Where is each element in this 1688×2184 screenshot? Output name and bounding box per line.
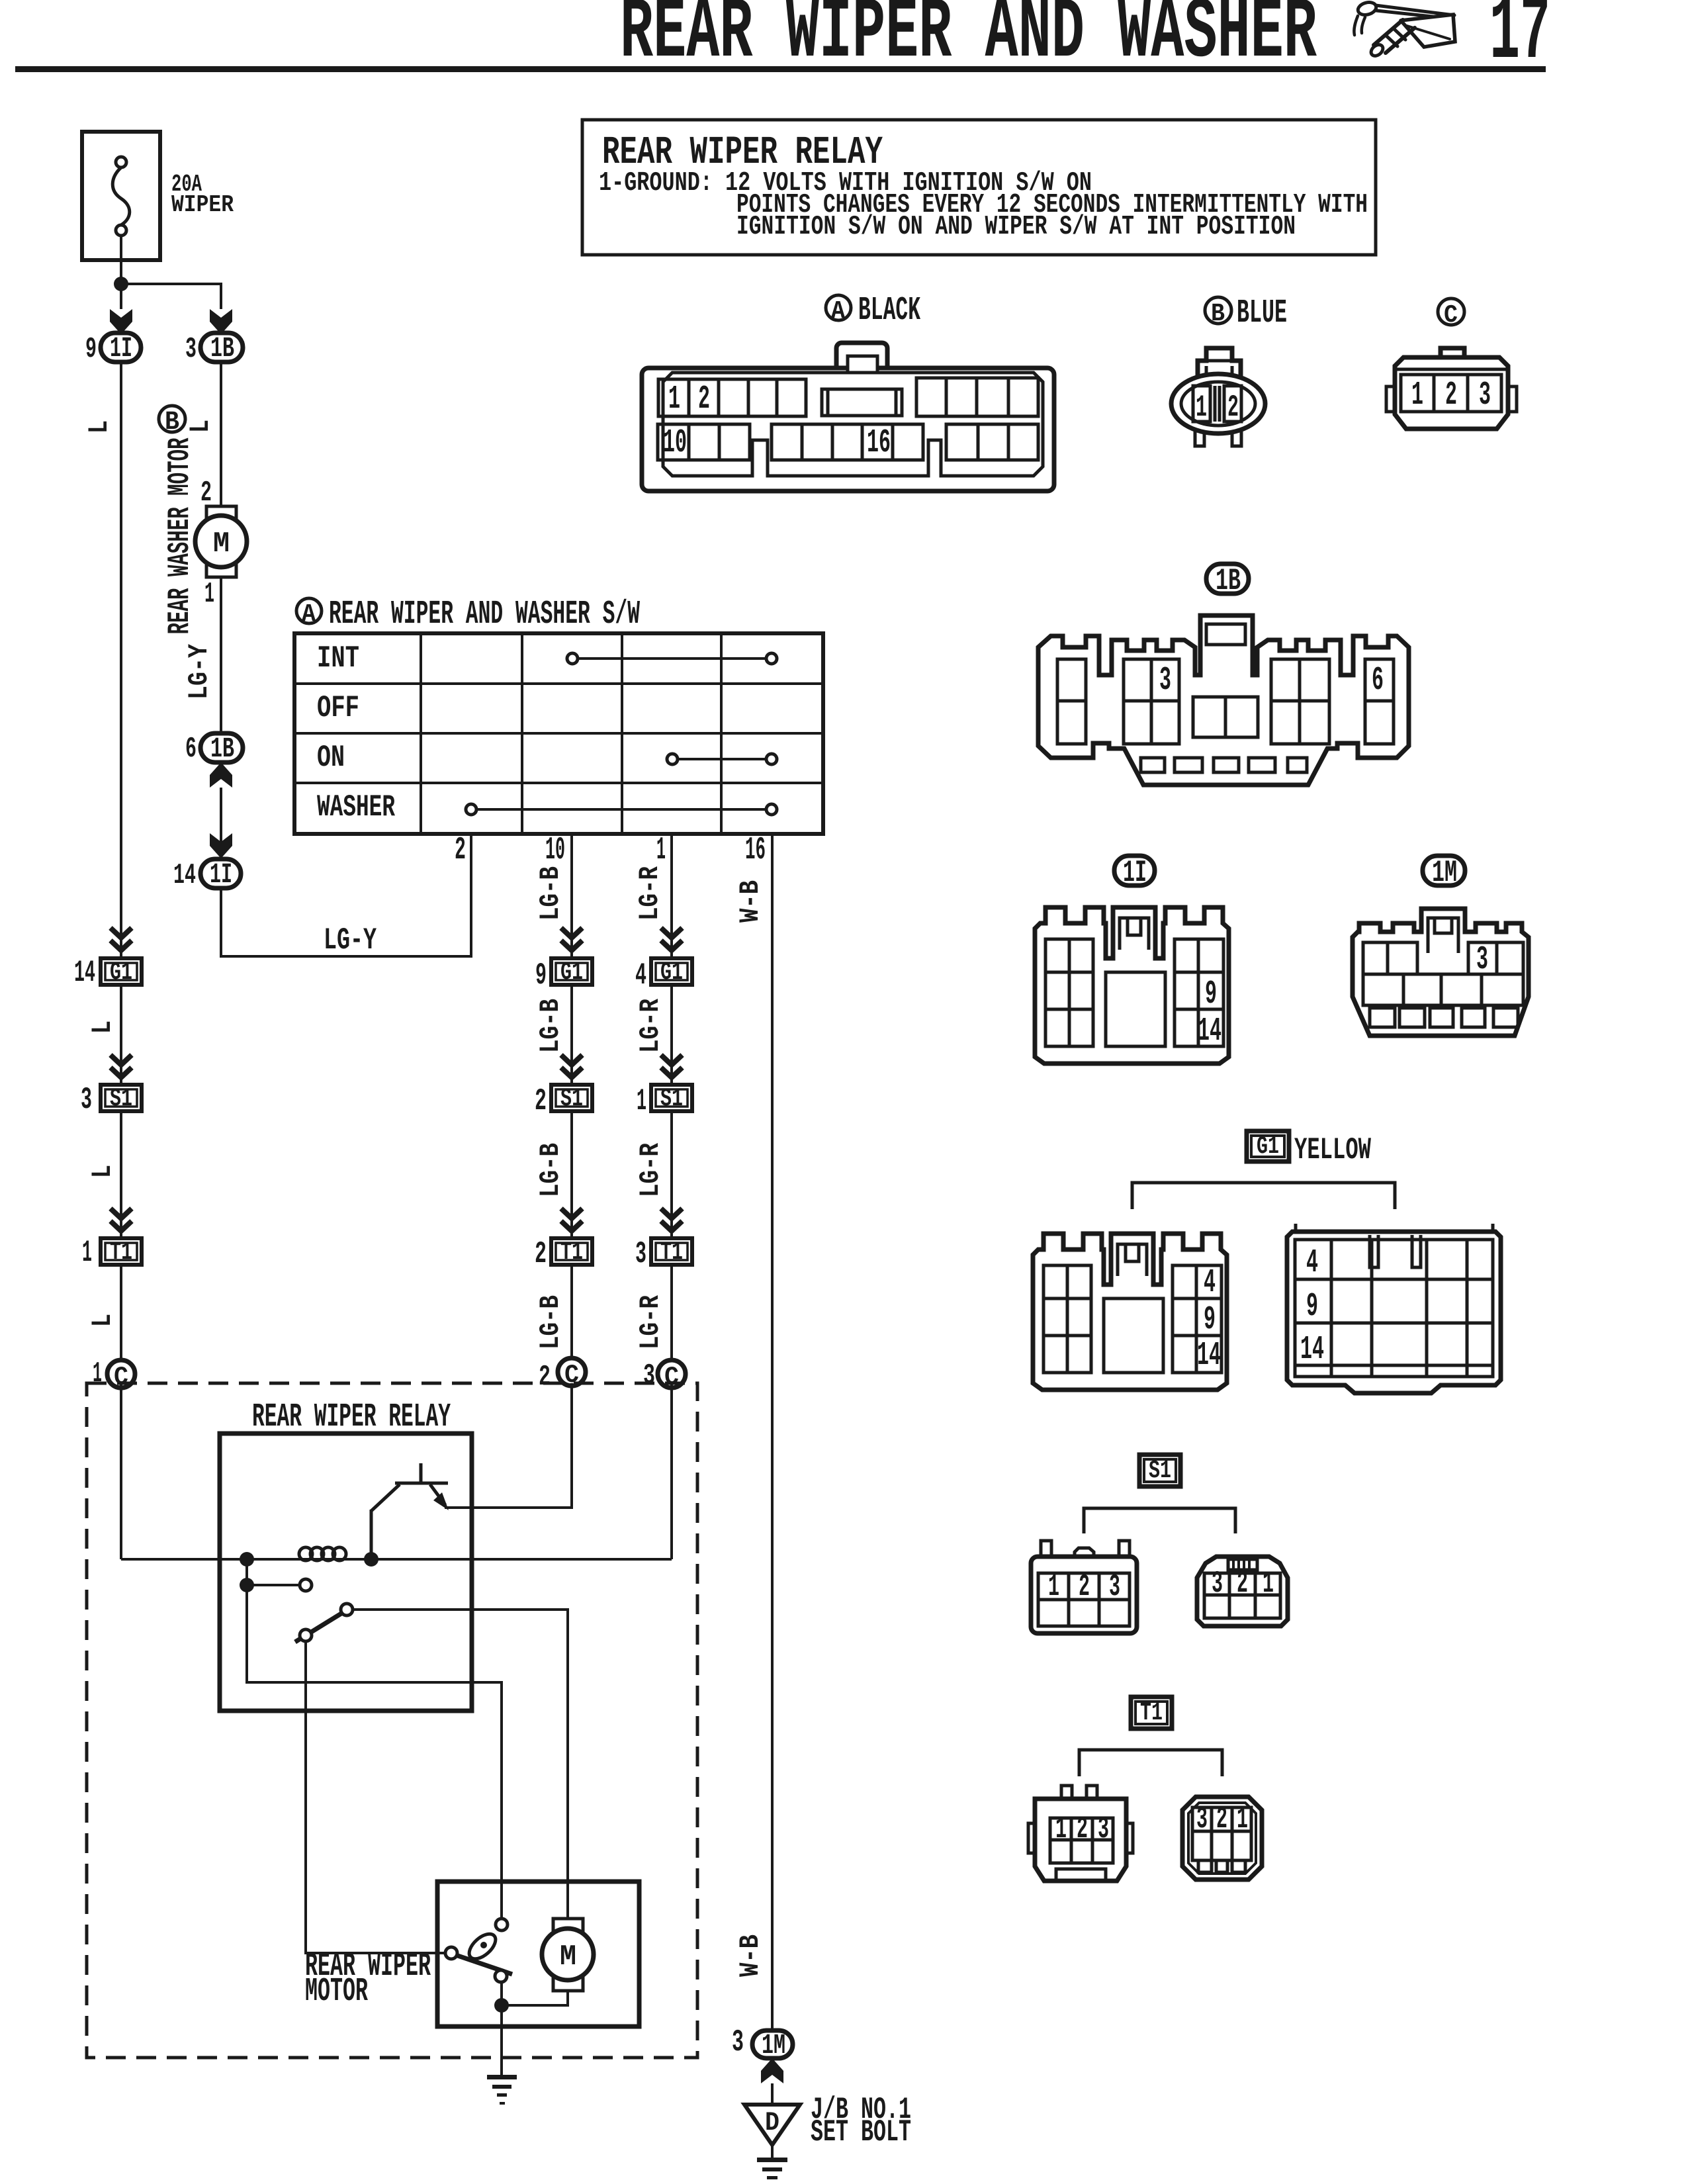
svg-text:16: 16 — [745, 833, 766, 868]
svg-text:YELLOW: YELLOW — [1294, 1133, 1371, 1167]
connector G1 female body — [1033, 1234, 1227, 1390]
SECTION: infobox — [582, 120, 1376, 255]
connector G1 male body — [1287, 1232, 1501, 1393]
pivot contact circle — [300, 1629, 312, 1641]
svg-text:SET BOLT: SET BOLT — [811, 2115, 911, 2150]
connector T1 female side ears — [1028, 1823, 1133, 1853]
title underline — [15, 66, 1546, 72]
T1 female grid — [1050, 1818, 1113, 1863]
svg-text:L: L — [87, 1021, 118, 1034]
svg-text:REAR WASHER MOTOR: REAR WASHER MOTOR — [163, 437, 197, 634]
svg-text:1: 1 — [82, 1236, 92, 1270]
arrow into 1I — [210, 833, 232, 858]
wire to motor M bottom — [502, 1991, 568, 2005]
svg-text:1B: 1B — [210, 733, 234, 765]
svg-text:3: 3 — [732, 2025, 744, 2060]
SECTION: connG1 — [1033, 1131, 1501, 1393]
wire from coil junction down and to motor contact — [247, 1585, 502, 1918]
T1 male bottom slots — [1198, 1860, 1245, 1872]
wire L to washer motor — [220, 362, 222, 506]
svg-text:2: 2 — [1079, 1570, 1090, 1604]
svg-text:1B: 1B — [210, 332, 234, 365]
cam symbol — [465, 1929, 500, 1963]
connector C side ears — [1386, 387, 1517, 412]
svg-text:3: 3 — [1109, 1570, 1120, 1604]
pin 1 stub — [670, 834, 673, 1362]
svg-text:A: A — [302, 600, 316, 629]
1B skirt slots — [1141, 758, 1307, 772]
svg-text:M: M — [560, 1940, 576, 1974]
svg-text:14: 14 — [1198, 1013, 1222, 1050]
svg-text:1B: 1B — [1216, 564, 1241, 598]
connector B body oval — [1171, 374, 1265, 433]
arrow into S1 right — [661, 1055, 682, 1077]
svg-text:S1: S1 — [560, 1085, 583, 1113]
arrow into G1 right — [661, 928, 682, 950]
svg-text:LG-R: LG-R — [635, 1142, 666, 1197]
svg-text:10: 10 — [663, 424, 687, 462]
svg-text:1I: 1I — [110, 332, 132, 365]
switch table frame — [294, 633, 823, 834]
S1 bracket — [1084, 1508, 1235, 1533]
svg-text:D: D — [765, 2109, 779, 2138]
svg-text:14: 14 — [1300, 1331, 1324, 1369]
moving contact circle — [341, 1604, 353, 1615]
motor switch pivot — [445, 1947, 457, 1959]
svg-text:3: 3 — [185, 333, 197, 366]
svg-text:2: 2 — [1227, 390, 1239, 425]
wire LG-Y from washer motor — [220, 577, 222, 735]
connector B top post — [1198, 348, 1241, 380]
connector T1 male body — [1182, 1797, 1262, 1880]
svg-text:WASHER: WASHER — [317, 790, 395, 825]
wire between 1B and 1I — [220, 788, 222, 860]
svg-text:BLUE: BLUE — [1237, 295, 1287, 332]
wire left contact feed — [247, 1559, 299, 1585]
connector C cells — [1401, 375, 1501, 412]
fixed contact circle — [300, 1579, 312, 1591]
svg-text:1: 1 — [1237, 1802, 1248, 1837]
svg-text:3: 3 — [635, 1237, 646, 1271]
svg-text:1: 1 — [204, 578, 214, 611]
transistor Q1 — [371, 1463, 448, 1559]
arrow into S1 mid — [561, 1055, 582, 1077]
S1 female grid — [1038, 1573, 1130, 1626]
svg-text:REAR WIPER RELAY: REAR WIPER RELAY — [252, 1398, 451, 1436]
svg-text:3: 3 — [643, 1359, 655, 1392]
connector C tab — [1441, 348, 1464, 367]
circle B label — [159, 406, 185, 432]
svg-text:9: 9 — [85, 333, 97, 366]
connector S1 female body — [1031, 1557, 1137, 1633]
svg-text:2: 2 — [698, 381, 710, 418]
junction box label G1 — [1247, 1131, 1289, 1161]
pin row 10 group — [658, 424, 750, 460]
svg-text:B: B — [165, 408, 179, 437]
connector S1 male body — [1197, 1557, 1288, 1626]
connector A body — [642, 368, 1054, 491]
connector B feet — [1195, 430, 1241, 446]
svg-text:14: 14 — [173, 859, 196, 892]
junction box label S1 — [1139, 1455, 1180, 1486]
SECTION: switchtable — [294, 596, 823, 2032]
svg-text:3: 3 — [81, 1083, 92, 1117]
svg-text:2: 2 — [1077, 1812, 1088, 1846]
connector C body — [1395, 357, 1508, 429]
connector T1 female body — [1035, 1799, 1126, 1881]
svg-text:A: A — [831, 297, 845, 326]
svg-text:WIPER: WIPER — [171, 191, 234, 218]
svg-text:1M: 1M — [762, 2029, 785, 2062]
label C circle — [1438, 298, 1464, 325]
wire from 3C down to coil line — [670, 1385, 673, 1559]
label REAR WIPER RELAY — [238, 1396, 470, 1430]
svg-text:14: 14 — [74, 956, 95, 990]
svg-text:ON: ON — [317, 741, 345, 775]
junction dot — [114, 277, 128, 291]
washer motor M — [206, 506, 236, 524]
wire from moving contact to wiper motor M — [353, 1610, 568, 1920]
WASHER contact line — [476, 808, 767, 811]
junction dot right — [364, 1552, 378, 1567]
wire from 2C down to transistor emitter — [445, 1383, 572, 1508]
svg-text:L: L — [185, 420, 216, 433]
svg-text:2: 2 — [535, 1237, 547, 1271]
svg-text:REAR WIPER AND WASHER S/W: REAR WIPER AND WASHER S/W — [329, 596, 640, 633]
connector S1 female top tabs — [1041, 1541, 1130, 1558]
fuse 20A WIPER box — [82, 132, 160, 260]
1B mid-left cells — [1124, 659, 1179, 744]
svg-text:LG-B: LG-B — [535, 1143, 566, 1197]
wire from pivot to motor switch — [306, 1641, 444, 1953]
svg-text:4: 4 — [635, 958, 646, 993]
ground motor — [487, 2075, 517, 2105]
rear wiper motor box — [437, 1882, 639, 2026]
G1 male top stubs — [1296, 1224, 1493, 1232]
T1 male grid — [1192, 1807, 1251, 1860]
svg-text:C: C — [1444, 301, 1458, 330]
svg-text:T1: T1 — [110, 1238, 132, 1267]
svg-text:9: 9 — [1204, 1301, 1216, 1339]
svg-text:B: B — [1211, 300, 1225, 328]
arrow into G1 left — [111, 928, 132, 950]
svg-text:4: 4 — [1306, 1244, 1318, 1282]
svg-text:G1: G1 — [560, 958, 583, 987]
top right pin group — [916, 378, 1038, 416]
svg-text:1: 1 — [637, 1084, 646, 1118]
wire contact to ground — [500, 1982, 503, 2077]
svg-text:IGNITION S/W ON AND WIPER S/W: IGNITION S/W ON AND WIPER S/W AT INT POS… — [736, 212, 1296, 242]
junction dot left — [240, 1552, 254, 1567]
svg-text:LG-R: LG-R — [635, 1295, 666, 1349]
1M top row cells — [1363, 942, 1417, 974]
svg-text:1I: 1I — [1123, 856, 1147, 890]
junction dot motor — [494, 1998, 509, 2013]
svg-text:M: M — [213, 527, 230, 561]
wiper arm icon — [1354, 1, 1455, 58]
svg-text:3: 3 — [1196, 1802, 1208, 1837]
pin 10 stub — [570, 834, 573, 1361]
connector 1M body — [1353, 909, 1529, 1036]
svg-text:6: 6 — [185, 733, 197, 766]
svg-text:6: 6 — [1372, 662, 1384, 700]
svg-text:1I: 1I — [210, 858, 232, 891]
svg-text:4: 4 — [1204, 1264, 1216, 1302]
svg-text:G1: G1 — [1257, 1132, 1279, 1161]
svg-text:S1: S1 — [110, 1085, 132, 1113]
label B circle BLUE — [1205, 297, 1231, 324]
wire LG-Y to switch pin 2 — [221, 834, 471, 956]
svg-text:G1: G1 — [660, 958, 683, 987]
connector 1M post inner — [1428, 918, 1458, 953]
svg-text:T1: T1 — [1140, 1699, 1163, 1727]
rear wiper relay info box — [582, 120, 1376, 255]
connector 1B post inner — [1206, 624, 1245, 645]
svg-text:2: 2 — [535, 1084, 547, 1118]
middle key slot — [822, 389, 902, 416]
SECTION: connS1T1 — [1028, 1455, 1288, 1881]
S1 male grid — [1204, 1573, 1280, 1618]
svg-text:S1: S1 — [660, 1085, 683, 1113]
svg-text:2: 2 — [539, 1361, 551, 1394]
connector oval label 1I — [1114, 856, 1155, 886]
svg-text:1: 1 — [1411, 377, 1423, 414]
wiper motor M — [553, 1919, 583, 1936]
svg-text:1: 1 — [1196, 390, 1207, 425]
svg-text:2: 2 — [1216, 1802, 1227, 1837]
motor upper fixed contact — [496, 1919, 508, 1931]
connector A tab inner — [848, 356, 877, 379]
svg-text:LG-B: LG-B — [535, 999, 566, 1053]
connector B cells 1 2 — [1193, 386, 1210, 422]
arrow into 1I — [110, 309, 132, 334]
svg-text:9: 9 — [535, 958, 547, 993]
pin 16 stub — [771, 834, 774, 2032]
svg-text:9: 9 — [1306, 1288, 1318, 1326]
SECTION: connBC — [1171, 295, 1517, 446]
svg-text:OFF: OFF — [317, 691, 359, 725]
svg-text:3: 3 — [1479, 377, 1491, 414]
svg-text:3: 3 — [1212, 1567, 1223, 1601]
pin row 16 group — [772, 424, 923, 460]
motor moving contact — [495, 1970, 507, 1982]
ground set bolt — [757, 2158, 787, 2179]
svg-text:3: 3 — [1159, 662, 1171, 700]
svg-text:T1: T1 — [660, 1238, 683, 1267]
svg-text:1: 1 — [656, 833, 666, 868]
T1 bracket — [1079, 1750, 1222, 1776]
connector A inner outline — [663, 373, 1043, 476]
svg-text:14: 14 — [1197, 1337, 1221, 1375]
arrow into T1 right — [661, 1208, 682, 1231]
wire L left column — [120, 362, 122, 1362]
svg-text:1: 1 — [1263, 1567, 1274, 1601]
svg-text:LG-R: LG-R — [635, 998, 666, 1053]
1B left wing cell — [1057, 659, 1086, 744]
svg-text:BLACK: BLACK — [858, 292, 920, 330]
G1 bracket — [1132, 1183, 1395, 1209]
wire 1M to set bolt — [771, 2083, 774, 2103]
SECTION: header — [15, 0, 1550, 85]
arrow into G1 mid — [561, 928, 582, 950]
svg-text:L: L — [83, 420, 115, 433]
wire branch to right — [121, 284, 221, 309]
relay switch arm — [295, 1612, 343, 1642]
1M skirt slots — [1370, 1008, 1518, 1027]
svg-text:INT: INT — [317, 641, 359, 676]
arrow into 1B — [210, 309, 232, 334]
svg-text:1: 1 — [1048, 1570, 1059, 1604]
relay coil — [299, 1547, 346, 1561]
fuse element — [112, 167, 130, 225]
arrow up into 1M — [761, 2058, 783, 2083]
table row lines — [294, 684, 823, 783]
svg-text:LG-B: LG-B — [535, 1295, 566, 1349]
label A circle BLACK — [826, 295, 851, 320]
connector A tab — [836, 343, 887, 376]
wire from 1C down — [120, 1385, 122, 1559]
G1 male inner grid — [1295, 1240, 1493, 1377]
connector 1I body — [1035, 907, 1229, 1064]
connector oval label 1B — [1206, 564, 1249, 594]
rear wiper relay box — [220, 1433, 472, 1711]
coil feed wire — [121, 1558, 672, 1561]
svg-text:2: 2 — [455, 833, 466, 868]
junction dot lower — [240, 1578, 254, 1592]
motor switch arm — [456, 1955, 512, 1974]
1B center cells — [1193, 697, 1258, 737]
svg-text:L: L — [87, 1165, 118, 1178]
set bolt D triangle — [744, 2105, 800, 2145]
SECTION: relaybottom — [87, 1383, 911, 2179]
arrow into T1 left — [111, 1208, 132, 1231]
svg-text:2: 2 — [1237, 1567, 1248, 1601]
wire from fuse down — [120, 236, 122, 309]
T1 female bottom slot — [1056, 1869, 1106, 1881]
pin row 1-2 group — [658, 379, 806, 416]
S1 male latch hatch — [1228, 1559, 1257, 1570]
svg-text:1: 1 — [668, 381, 680, 418]
1B mid-right cells — [1271, 659, 1329, 744]
svg-text:3: 3 — [1098, 1812, 1109, 1846]
svg-text:MOTOR: MOTOR — [305, 1973, 368, 2011]
ON contact line — [677, 758, 767, 760]
svg-text:LG-B: LG-B — [535, 866, 566, 921]
svg-text:10: 10 — [545, 833, 565, 868]
svg-text:LG-Y: LG-Y — [183, 643, 215, 700]
dashed relay assembly box — [87, 1383, 697, 2058]
svg-text:LG-R: LG-R — [634, 866, 666, 921]
svg-text:S1: S1 — [1149, 1457, 1171, 1485]
svg-text:L: L — [87, 1314, 118, 1327]
1B right wing cell — [1365, 659, 1394, 744]
arrow into T1 mid — [561, 1208, 582, 1231]
svg-text:1M: 1M — [1432, 856, 1457, 890]
svg-text:16: 16 — [867, 424, 891, 462]
svg-text:W-B: W-B — [734, 880, 766, 923]
svg-text:9: 9 — [1205, 976, 1217, 1013]
INT contact line — [577, 657, 767, 660]
connector 1B body — [1038, 615, 1409, 785]
connector oval label 1M — [1423, 856, 1465, 886]
svg-text:G1: G1 — [110, 958, 132, 987]
arrow into S1 left — [111, 1055, 132, 1077]
svg-text:T1: T1 — [560, 1238, 583, 1267]
label A circle — [296, 598, 322, 623]
svg-text:W-B: W-B — [734, 1934, 766, 1977]
connector T1 female top tabs — [1061, 1786, 1097, 1800]
svg-text:1: 1 — [93, 1357, 102, 1390]
G1 male top notches — [1370, 1235, 1421, 1267]
junction box label T1 — [1131, 1697, 1172, 1729]
svg-text:1: 1 — [1055, 1812, 1067, 1846]
connector C inner top line — [1395, 368, 1508, 371]
wire D to ground — [771, 2145, 774, 2160]
SECTION: conn1B — [1038, 564, 1409, 785]
1M bottom row cells — [1363, 974, 1523, 1005]
arrow up out of 1B — [210, 762, 232, 788]
table column lines — [421, 633, 721, 834]
svg-text:LG-Y: LG-Y — [324, 923, 377, 958]
svg-text:2: 2 — [1445, 377, 1457, 414]
SECTION: connA — [642, 292, 1054, 491]
bottom right pin group — [946, 424, 1038, 460]
